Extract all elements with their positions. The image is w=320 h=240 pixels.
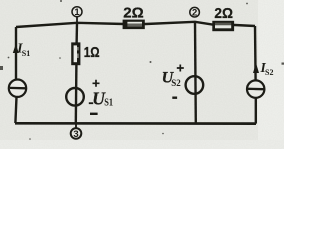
US2 minus — [172, 97, 177, 99]
svg-text:2Ω: 2Ω — [214, 5, 233, 22]
scan specks — [0, 0, 284, 140]
svg-text:S1: S1 — [22, 49, 30, 58]
resistor R2 2ohm — [212, 21, 234, 31]
US1 minus — [90, 113, 98, 115]
svg-text:3: 3 — [73, 129, 78, 140]
node 1 tick — [76, 17, 78, 26]
wire top: node1 to node2 segment with resistors — [16, 22, 255, 27]
svg-text:S2: S2 — [265, 68, 273, 77]
stray mark — [89, 102, 93, 104]
wire branch node2 down to bottom through U_S2 — [194, 22, 197, 124]
wire right upper — [254, 26, 257, 81]
wire left side — [15, 27, 17, 80]
IS2 arrow — [253, 63, 259, 73]
resistor 1ohm — [71, 42, 80, 65]
node 1 — [72, 7, 82, 19]
node 2 — [190, 7, 200, 18]
voltage source US1 — [66, 88, 84, 106]
svg-text:2: 2 — [192, 8, 197, 19]
svg-text:2Ω: 2Ω — [123, 5, 143, 22]
current source IS1 — [9, 80, 26, 97]
US1 plus — [93, 80, 100, 87]
wire bottom — [15, 122, 256, 125]
node 3 — [71, 123, 82, 141]
wire resistor to bottom through U_S1 — [75, 64, 78, 123]
wire right lower — [255, 98, 257, 124]
IS1 arrow — [13, 44, 19, 53]
svg-text:S1: S1 — [104, 98, 113, 109]
wire left lower — [15, 97, 16, 123]
svg-text:1Ω: 1Ω — [84, 45, 100, 61]
resistor R1 2ohm — [123, 20, 145, 30]
US2 plus — [177, 65, 184, 72]
svg-text:S2: S2 — [171, 79, 181, 89]
wire branch node1 down to resistor — [75, 23, 78, 44]
svg-text:1: 1 — [74, 7, 80, 18]
voltage source US2 — [186, 76, 204, 94]
current source IS2 — [247, 80, 264, 97]
